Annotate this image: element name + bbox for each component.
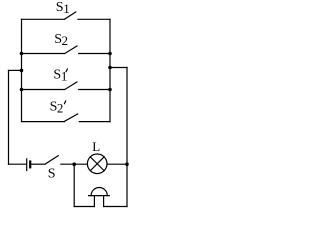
battery short plate (29, 162, 31, 168)
wire inner left rail (21, 19, 23, 121)
svg-text:2: 2 (62, 33, 69, 48)
wire lamp to right rail (107, 163, 127, 165)
wire S2 row right (79, 53, 110, 55)
wire battery to switch S (31, 163, 46, 165)
wire battery row left (9, 163, 27, 165)
node dot left rail S2 (20, 52, 24, 56)
node dot left rail S1p (20, 88, 24, 92)
bell dome (91, 188, 107, 196)
svg-text:2: 2 (57, 101, 64, 116)
bell base line (89, 195, 110, 197)
node dot lamp row left (72, 162, 76, 166)
wire bell branch down (73, 164, 75, 206)
wire switch S to lamp (61, 163, 88, 165)
switch S blade (46, 156, 59, 164)
wire bottom right (104, 206, 127, 208)
node dot lamp row right (125, 162, 129, 166)
lamp L circle (87, 154, 107, 174)
wire outer right rail (126, 68, 128, 207)
switch S1p blade (65, 82, 77, 89)
wire S1p row right (79, 89, 110, 91)
switch S2 blade (65, 46, 77, 53)
node dot right rail S2 (108, 52, 112, 56)
label S1' prime mark (66, 69, 67, 72)
wire S1 row right (78, 18, 110, 20)
wire right link (110, 67, 127, 69)
label S2' prime mark (64, 101, 65, 104)
svg-text:L: L (92, 139, 100, 154)
svg-text:1: 1 (63, 1, 69, 16)
switch S1 blade (65, 12, 76, 19)
node dot right rail S1p (108, 88, 112, 92)
svg-text:S: S (48, 166, 56, 181)
lamp X stroke 2 (90, 157, 104, 171)
wire inner right rail (109, 19, 111, 121)
wire bottom left (74, 206, 94, 208)
node dot right rail link (108, 66, 112, 70)
wire S2 row left (22, 53, 65, 55)
battery long plate (26, 159, 28, 171)
wire outer left rail (8, 70, 10, 164)
switch S2p blade (65, 114, 78, 121)
wire S1p row left (22, 89, 65, 91)
wire S2p row right (79, 121, 110, 123)
wire S1 row left (22, 18, 65, 20)
bell left leg (93, 196, 95, 207)
wire left link (9, 69, 22, 71)
node dot left rail link (20, 69, 24, 73)
bell right leg (103, 196, 105, 207)
wire S2p row left (22, 121, 65, 123)
lamp X stroke 1 (90, 157, 104, 171)
